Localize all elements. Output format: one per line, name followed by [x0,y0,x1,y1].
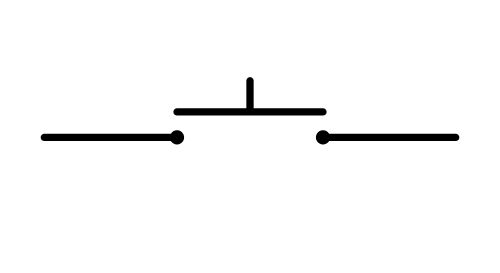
switch SW1 contact bar [177,108,323,115]
wire left lead [44,134,177,141]
node right terminal [316,130,330,144]
switch SW1 actuator stub [246,81,253,112]
wire right lead [323,134,456,141]
node left terminal [170,130,184,144]
